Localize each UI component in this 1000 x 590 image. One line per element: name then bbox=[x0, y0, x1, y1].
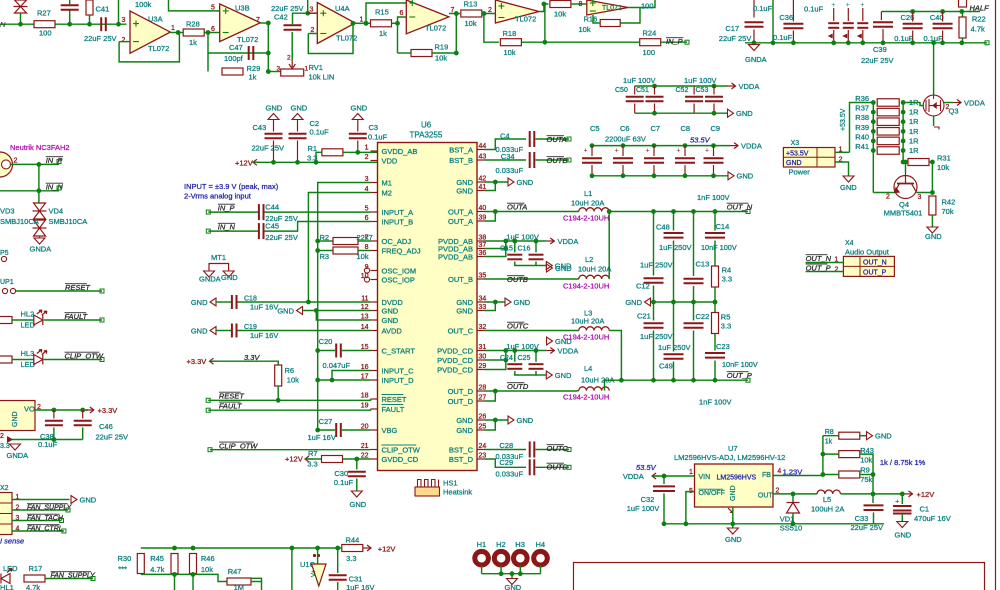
svg-text:100: 100 bbox=[641, 2, 654, 11]
TVS diode VD? bbox=[14, 0, 28, 13]
pin 15 C_START of U6 bbox=[371, 350, 378, 352]
svg-text:INPUT_B: INPUT_B bbox=[382, 217, 414, 226]
svg-text:2: 2 bbox=[0, 433, 4, 440]
svg-text:R38: R38 bbox=[855, 113, 869, 122]
net label FAN_SUPPLY at X2 bbox=[27, 504, 73, 512]
power +12V arrow left bbox=[253, 159, 261, 165]
svg-text:C13: C13 bbox=[696, 260, 710, 269]
wire U3A feedback bbox=[127, 41, 131, 43]
svg-text:22uF 25V: 22uF 25V bbox=[265, 233, 298, 242]
svg-text:GNDA: GNDA bbox=[199, 275, 221, 284]
wire +12V VDD row bbox=[253, 161, 378, 163]
svg-text:OUTB: OUTB bbox=[507, 275, 528, 284]
wire C35 stem bbox=[772, 0, 774, 43]
wire pin24 to C28 bbox=[485, 449, 527, 451]
wire OUT row bbox=[773, 493, 817, 495]
global label GND at pin34 bbox=[505, 298, 531, 307]
svg-text:C12: C12 bbox=[636, 282, 650, 291]
svg-text:1uF 100V: 1uF 100V bbox=[684, 76, 717, 85]
resistor R37 bbox=[877, 108, 899, 116]
capacitor C39 bbox=[873, 22, 893, 27]
svg-text:1uF 250V: 1uF 250V bbox=[658, 343, 691, 352]
svg-text:RESET: RESET bbox=[219, 392, 245, 401]
wire H4 stub bbox=[540, 565, 542, 574]
junction R41 right bbox=[901, 148, 906, 153]
junction bbox=[493, 389, 498, 394]
wire U3B plus input bbox=[169, 0, 220, 11]
wire pin42 gnd bbox=[485, 181, 509, 183]
regulator U2 body bbox=[0, 401, 35, 431]
svg-text:R27: R27 bbox=[37, 9, 51, 18]
net label OUTC bbox=[507, 322, 529, 331]
svg-text:L1: L1 bbox=[584, 189, 592, 198]
junction bbox=[691, 378, 696, 383]
svg-text:22uF 25V: 22uF 25V bbox=[851, 523, 884, 532]
svg-text:1uF 250V: 1uF 250V bbox=[640, 261, 673, 270]
wire C3 top bbox=[357, 120, 359, 132]
junction bbox=[900, 492, 905, 497]
power VDDA arrow at C24 bbox=[546, 348, 554, 354]
pin 41 GND of U6 bbox=[477, 190, 485, 192]
svg-text:AVDD: AVDD bbox=[382, 326, 403, 335]
svg-text:C21: C21 bbox=[637, 312, 651, 321]
TVS diode VD4 bbox=[33, 220, 47, 236]
wire chain2 top bbox=[673, 212, 675, 231]
power +12V arrow at R7 bbox=[305, 456, 313, 462]
polarity arrow of cap1 bbox=[842, 34, 847, 39]
svg-text:3.3: 3.3 bbox=[721, 322, 731, 331]
connector X2 body bbox=[0, 493, 12, 535]
wire C18 to pin11 bbox=[238, 301, 371, 303]
junction R36 left bbox=[871, 100, 876, 105]
resistor R43 bbox=[839, 451, 860, 458]
wire to top edge bbox=[118, 0, 120, 24]
svg-text:C51: C51 bbox=[636, 87, 649, 94]
svg-text:OUT_B: OUT_B bbox=[448, 275, 473, 284]
wire R7 to pin22 bbox=[343, 458, 371, 460]
svg-text:R4: R4 bbox=[722, 266, 732, 275]
svg-text:0.047uF: 0.047uF bbox=[323, 361, 351, 370]
wire bank left feed bbox=[850, 103, 874, 153]
power VDDA arrow at C15 bbox=[546, 238, 554, 244]
IC U7 body bbox=[695, 464, 774, 507]
svg-text:OUTA: OUTA bbox=[507, 203, 527, 212]
wire TVS stem bbox=[20, 13, 22, 24]
capacitor C4 bbox=[530, 131, 535, 147]
svg-text:R44: R44 bbox=[346, 536, 360, 545]
capacitor C43 bbox=[265, 134, 283, 139]
pin 14 AVDD of U6 bbox=[371, 330, 378, 332]
svg-text:C36: C36 bbox=[779, 13, 793, 22]
svg-text:C47: C47 bbox=[229, 43, 243, 52]
pin 3 M1 of U6 bbox=[371, 182, 378, 184]
potentiometer RV1 body bbox=[281, 69, 304, 76]
pin 43 BST_B of U6 bbox=[477, 159, 485, 161]
junction bbox=[290, 546, 295, 551]
wire C20 left bbox=[318, 350, 335, 352]
svg-text:0.1uF: 0.1uF bbox=[753, 4, 773, 13]
capacitor C18 bbox=[232, 295, 237, 309]
wire pin39 up bbox=[485, 212, 496, 222]
wire C6 top stem bbox=[622, 146, 624, 156]
pin 25 GND of U6 bbox=[477, 429, 485, 431]
svg-text:10uH 20A: 10uH 20A bbox=[578, 265, 611, 274]
junction bbox=[752, 40, 757, 45]
svg-text:2: 2 bbox=[835, 266, 839, 273]
capacitor C9 electrolytic bbox=[704, 158, 724, 163]
wire filter gnd rail bbox=[651, 301, 716, 303]
junction bbox=[534, 348, 539, 353]
resistor R14 bbox=[550, 1, 571, 8]
op-amp U5B bbox=[587, 0, 628, 15]
wire RV1 wiper to C42 bbox=[291, 32, 293, 60]
svg-text:+: + bbox=[646, 148, 650, 155]
wire pin27 up bbox=[485, 391, 496, 401]
svg-text:10k: 10k bbox=[504, 48, 516, 57]
svg-text:SMBJ10CA: SMBJ10CA bbox=[0, 217, 39, 226]
wire R26 stem bbox=[89, 15, 91, 24]
capacitor C2 bbox=[289, 134, 307, 139]
svg-text:OUT_D: OUT_D bbox=[448, 387, 474, 396]
svg-text:GND: GND bbox=[517, 416, 534, 425]
junction bbox=[931, 40, 936, 45]
resistor R39 bbox=[877, 128, 899, 136]
ground GND above C3 bbox=[352, 114, 363, 120]
capacitor C49 bbox=[664, 354, 684, 359]
wire U4A fb bbox=[308, 33, 317, 35]
svg-text:1R: 1R bbox=[909, 127, 919, 136]
wire HL3 to CLIP_OTW bbox=[44, 359, 102, 361]
wire U3B out bbox=[260, 22, 268, 24]
svg-text:22uF 25V: 22uF 25V bbox=[84, 34, 117, 43]
wire pin34 gnd bbox=[485, 301, 506, 303]
svg-text:TL072: TL072 bbox=[602, 5, 622, 12]
capacitor C31 bbox=[329, 575, 347, 580]
svg-text:VD4: VD4 bbox=[49, 207, 64, 216]
pin name FAULT bbox=[382, 405, 405, 414]
svg-text:X2: X2 bbox=[0, 485, 9, 492]
global label GND at C25 bbox=[546, 371, 572, 380]
wire R20 to HL2 bbox=[12, 319, 34, 321]
wire bank left rail bbox=[872, 103, 874, 193]
wire C38 stem bbox=[53, 410, 55, 419]
svg-text:10k: 10k bbox=[579, 25, 591, 34]
svg-text:GND: GND bbox=[875, 432, 892, 441]
svg-text:BST_D: BST_D bbox=[449, 455, 474, 464]
junction bbox=[691, 209, 696, 214]
wire pin41 gnd bbox=[485, 182, 496, 191]
no-connect circle OSC_IOM bbox=[364, 268, 369, 273]
svg-text:R30: R30 bbox=[118, 554, 132, 563]
svg-text:+: + bbox=[677, 148, 681, 155]
heatsink HS1 bbox=[415, 480, 440, 497]
svg-text:22uF 25V: 22uF 25V bbox=[861, 56, 894, 65]
svg-text:Q3: Q3 bbox=[949, 107, 959, 116]
pin name RESET bbox=[382, 395, 407, 404]
svg-text:Neutrik NC3FAH2: Neutrik NC3FAH2 bbox=[10, 143, 70, 152]
resistor R20 partial bbox=[0, 317, 12, 324]
svg-text:OUT: OUT bbox=[758, 493, 774, 500]
node CLIP hl3 bbox=[100, 358, 104, 362]
wire C52 bot stem bbox=[693, 104, 695, 114]
wire VDDA to VIN bbox=[652, 475, 695, 477]
svg-text:BST_B: BST_B bbox=[449, 156, 473, 165]
wire cap2 top bbox=[862, 8, 864, 21]
junction bbox=[652, 84, 657, 89]
wire R6 to RESET row bbox=[277, 386, 279, 400]
resistor R22 bbox=[959, 17, 966, 38]
pin 35 OUT_B of U6 bbox=[477, 278, 485, 280]
resistor R15 bbox=[371, 20, 392, 27]
svg-text:R8: R8 bbox=[825, 429, 834, 436]
svg-text:1uF 100V: 1uF 100V bbox=[506, 342, 539, 351]
wire C25 stem bbox=[535, 351, 537, 362]
mounting hole H4 bbox=[534, 551, 548, 565]
junction bbox=[37, 188, 42, 193]
svg-text:GND: GND bbox=[80, 495, 97, 504]
title block box bbox=[574, 563, 985, 590]
svg-text:OUTB: OUTB bbox=[547, 156, 568, 165]
wire pin36 join bbox=[485, 241, 506, 257]
svg-text:C39: C39 bbox=[873, 45, 887, 54]
wire chain2 mid2 bbox=[673, 302, 675, 352]
junction bbox=[116, 22, 121, 27]
wire C29 to OUTD bbox=[536, 466, 570, 468]
pin 42 GND of U6 bbox=[477, 181, 485, 183]
wire U7 gnd sym bbox=[732, 524, 734, 528]
junction R37 left bbox=[871, 110, 876, 115]
transistor Q4 MMBT5401 bbox=[894, 172, 917, 199]
wire gnd rail to label bbox=[536, 265, 546, 267]
junction bbox=[846, 40, 851, 45]
junction bbox=[503, 246, 508, 251]
wire C27 left bbox=[318, 429, 335, 431]
junction bbox=[499, 571, 504, 576]
wire Q3 bottom bbox=[933, 116, 935, 126]
svg-text:FAULT: FAULT bbox=[219, 401, 243, 410]
svg-text:0.033uF: 0.033uF bbox=[496, 470, 524, 479]
wire C7 top stem bbox=[653, 146, 655, 156]
wire C5 rail top bbox=[592, 145, 730, 147]
wire PVDD_AB row bbox=[485, 240, 547, 242]
wire R44 row bbox=[141, 547, 341, 549]
wire X3 pin2 bbox=[835, 162, 849, 176]
svg-text:LM2596HVS: LM2596HVS bbox=[717, 475, 757, 482]
svg-text:H4: H4 bbox=[536, 540, 546, 549]
junction bbox=[314, 308, 319, 313]
capacitor C24 bbox=[507, 364, 522, 369]
svg-text:+: + bbox=[615, 148, 619, 155]
junction bbox=[52, 437, 57, 442]
junction bbox=[266, 21, 271, 26]
wire R43 right bbox=[860, 454, 873, 474]
wire C47 row bbox=[208, 52, 268, 54]
wire C50 rail top bbox=[635, 85, 728, 87]
svg-text:22uF 25V: 22uF 25V bbox=[719, 34, 752, 43]
wire C31 stem bbox=[337, 548, 339, 573]
wire R22 bot bbox=[962, 38, 964, 43]
svg-text:IN_N: IN_N bbox=[218, 223, 236, 232]
wire pin37 join bbox=[485, 241, 506, 249]
wire pin17 INPUT_D bbox=[318, 379, 371, 381]
wire U4A fb loop bbox=[308, 23, 353, 53]
wire R9 to 12V bbox=[872, 475, 874, 494]
wire R2 to pin7 bbox=[358, 240, 371, 242]
svg-text:C17: C17 bbox=[725, 24, 739, 33]
junction bbox=[652, 111, 657, 116]
power +12V arrow bottom bbox=[905, 491, 913, 497]
wire C40 top bbox=[942, 12, 944, 22]
svg-text:C4: C4 bbox=[500, 132, 510, 141]
svg-text:Power: Power bbox=[789, 168, 811, 177]
wire OUT_D row bbox=[485, 390, 579, 392]
wire C24 stem bbox=[514, 351, 516, 362]
svg-text:OUT_N: OUT_N bbox=[727, 203, 753, 212]
ground GND above C43 bbox=[268, 114, 279, 120]
resistor R23 partial bbox=[959, 0, 967, 7]
svg-text:GND: GND bbox=[840, 183, 857, 192]
svg-text:0.1uF: 0.1uF bbox=[310, 128, 330, 137]
wire C1 stem bbox=[901, 494, 903, 504]
wire R46 bot bbox=[192, 574, 194, 590]
junction bbox=[315, 348, 320, 353]
svg-text:+: + bbox=[860, 2, 864, 9]
wire C44 to pin5 bbox=[265, 211, 371, 213]
svg-text:10k: 10k bbox=[435, 54, 447, 63]
junction bbox=[910, 40, 915, 45]
wire X4 pin1 bbox=[806, 262, 844, 264]
svg-text:10uH 20A: 10uH 20A bbox=[571, 317, 604, 326]
pin 27 OUT_D of U6 bbox=[477, 400, 485, 402]
pin 21 CLIP_OTW of U6 bbox=[371, 449, 378, 451]
svg-text:C22: C22 bbox=[696, 312, 710, 321]
power VDDA arrow at Q3 bbox=[953, 100, 961, 106]
svg-text:OSC_IOP: OSC_IOP bbox=[382, 275, 415, 284]
svg-text:GND: GND bbox=[277, 306, 294, 315]
svg-text:I sense: I sense bbox=[0, 537, 24, 546]
svg-text:C23: C23 bbox=[716, 342, 730, 351]
polarity arrow of cap0 bbox=[828, 34, 833, 39]
wire C24 C25 gnd rail bbox=[515, 371, 536, 375]
svg-text:C27: C27 bbox=[319, 417, 333, 426]
wire +3.3V to R6 bbox=[210, 361, 279, 365]
node RESET bbox=[206, 398, 210, 402]
wire OUT_C row bbox=[485, 330, 579, 332]
svg-text:1uF 250V: 1uF 250V bbox=[640, 332, 673, 341]
net label IN_P at C44 bbox=[218, 204, 235, 213]
svg-text:PVDD_CD: PVDD_CD bbox=[437, 365, 473, 374]
svg-text:2-Vrms analog input: 2-Vrms analog input bbox=[184, 192, 252, 201]
svg-text:R37: R37 bbox=[855, 104, 869, 113]
junction bbox=[482, 11, 487, 16]
pin 33 GND of U6 bbox=[477, 310, 485, 312]
junction bbox=[493, 418, 498, 423]
ground GND of C30 bbox=[351, 491, 362, 497]
inductor L2 bbox=[579, 275, 609, 279]
svg-text:2: 2 bbox=[287, 55, 291, 62]
svg-text:U3B: U3B bbox=[235, 4, 250, 13]
wire C38 bot bbox=[53, 428, 55, 440]
net label OUTB bbox=[507, 275, 528, 284]
junction bbox=[172, 572, 177, 577]
junction bbox=[512, 239, 517, 244]
svg-text:C46: C46 bbox=[99, 422, 113, 431]
wire C20 to pin15 bbox=[342, 350, 371, 352]
junction C6 bottom bbox=[621, 173, 626, 178]
junction bbox=[271, 160, 276, 165]
resistor R41 bbox=[877, 147, 899, 155]
svg-text:1R: 1R bbox=[909, 136, 919, 145]
wire C31 bot bbox=[337, 582, 339, 590]
wire chain1 bot bbox=[653, 331, 655, 381]
junction C5 bottom bbox=[590, 173, 595, 178]
junction bbox=[651, 209, 656, 214]
junction bbox=[791, 492, 796, 497]
svg-text:H2: H2 bbox=[496, 540, 506, 549]
junction bbox=[503, 239, 508, 244]
junction bbox=[315, 248, 320, 253]
wire pin25 up bbox=[485, 420, 496, 430]
junction bbox=[730, 521, 735, 526]
svg-text:4: 4 bbox=[777, 468, 781, 475]
svg-text:2: 2 bbox=[122, 37, 126, 44]
junction bbox=[871, 472, 876, 477]
global label GND at R8 bbox=[867, 432, 893, 441]
ground GND above C2 bbox=[292, 114, 303, 120]
wire C36 top bbox=[792, 0, 794, 22]
optocoupler UP1 pins bbox=[2, 288, 7, 293]
junction R39 right bbox=[901, 129, 906, 134]
global label GND at C9 bbox=[728, 172, 754, 181]
wire R9 left bbox=[823, 474, 839, 476]
svg-text:VDDA: VDDA bbox=[739, 82, 760, 91]
pin 18 RESET of U6 bbox=[371, 398, 378, 400]
svg-text:R5: R5 bbox=[721, 313, 731, 322]
wire L3 riser bbox=[609, 331, 621, 381]
node GNDA rail end bbox=[985, 41, 989, 45]
svg-text:+12V: +12V bbox=[235, 158, 253, 167]
wire C9 top stem bbox=[713, 146, 715, 156]
svg-text:X3: X3 bbox=[791, 140, 800, 147]
pin name ON/OFF of U7 bbox=[699, 489, 725, 497]
junction bbox=[713, 378, 718, 383]
junction bbox=[67, 22, 72, 27]
svg-text:1uF 16V: 1uF 16V bbox=[308, 433, 336, 442]
svg-text:GND: GND bbox=[382, 306, 399, 315]
junction bbox=[871, 492, 876, 497]
junction bbox=[295, 160, 300, 165]
wire C43 bot bbox=[273, 141, 275, 163]
capacitor C12 bbox=[644, 278, 664, 283]
wire R16 left bbox=[593, 15, 600, 23]
svg-text:4.7k: 4.7k bbox=[26, 583, 40, 590]
svg-text:+3.3V: +3.3V bbox=[187, 357, 207, 366]
wire cap1 top bbox=[847, 8, 849, 21]
capacitor C47 bbox=[249, 46, 254, 60]
svg-text:HALF: HALF bbox=[970, 4, 990, 13]
wire R13 to U5A bbox=[482, 13, 495, 15]
resistor R19 bbox=[411, 50, 432, 57]
capacitor C37 bbox=[61, 5, 79, 10]
svg-text:1R: 1R bbox=[909, 117, 919, 126]
capacitor C8 electrolytic bbox=[675, 158, 695, 163]
svg-text:HL3: HL3 bbox=[21, 349, 35, 358]
wire U4A out bbox=[355, 22, 371, 24]
svg-text:GVDD_AB: GVDD_AB bbox=[382, 147, 418, 156]
wire C30 stem bbox=[356, 459, 358, 470]
svg-text:1M: 1M bbox=[234, 583, 244, 590]
pin 8 FREQ_ADJ of U6 bbox=[371, 250, 378, 252]
